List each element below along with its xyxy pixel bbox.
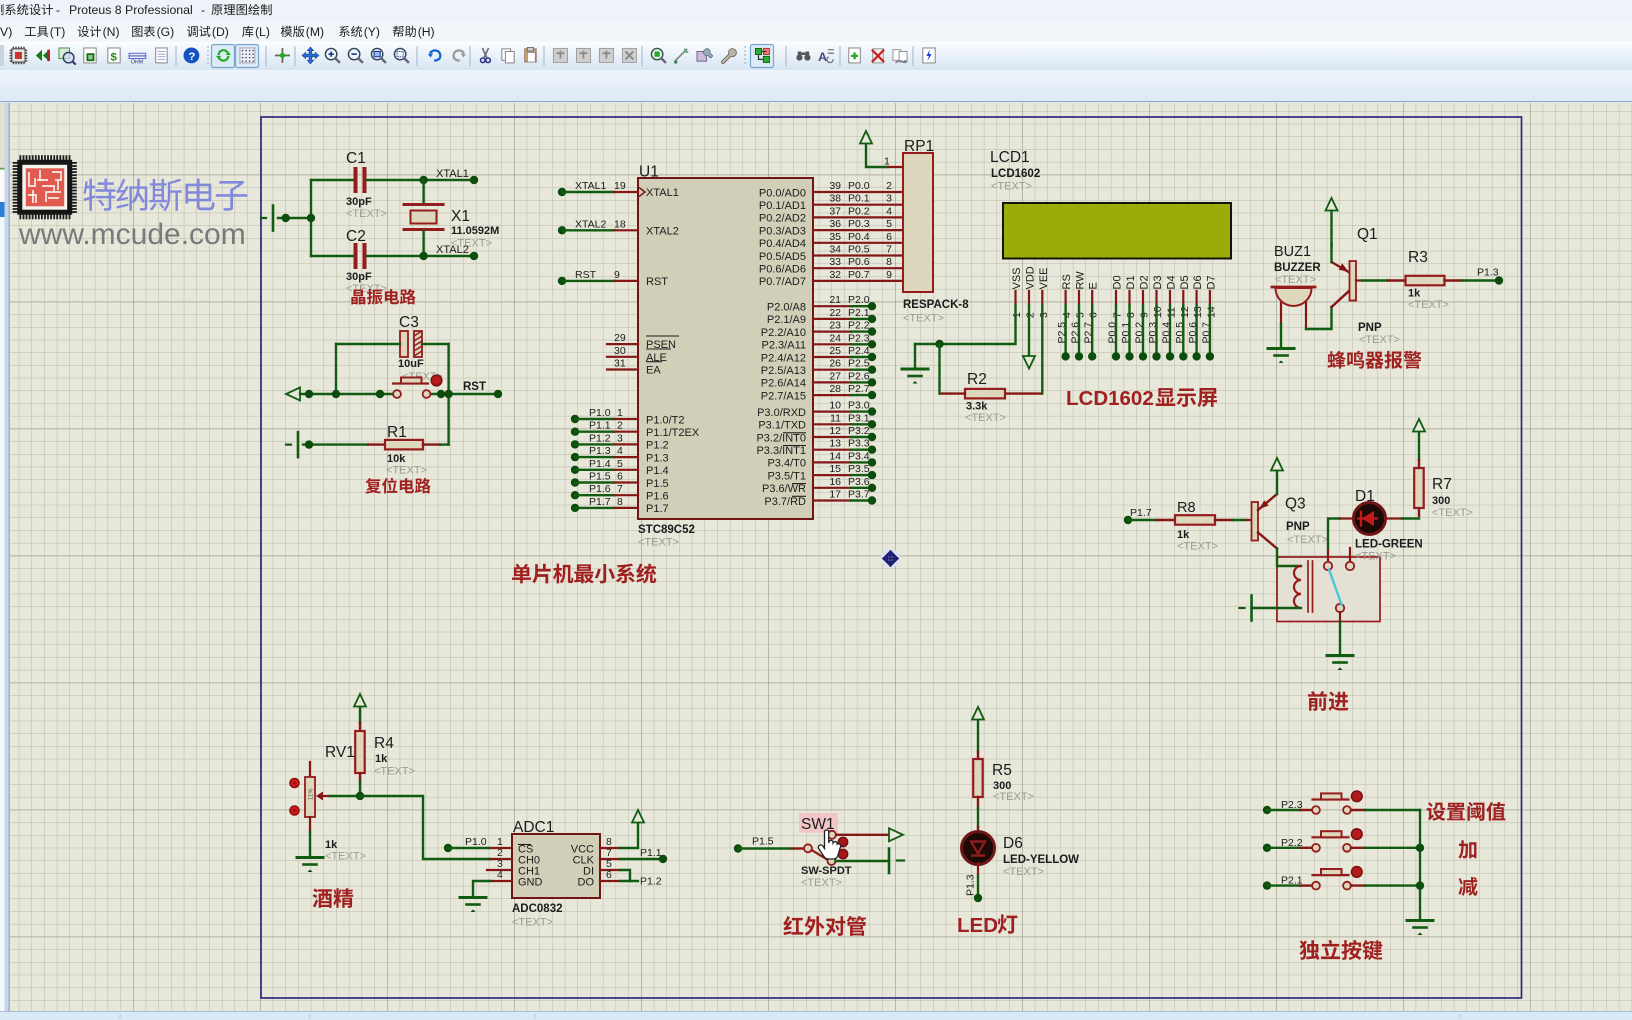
- svg-text:C1: C1: [346, 150, 366, 167]
- svg-text:<TEXT>: <TEXT>: [903, 313, 944, 325]
- svg-text:P0.0/AD0: P0.0/AD0: [759, 187, 806, 199]
- svg-text:R1: R1: [387, 424, 407, 441]
- U1 pin EA (31): [607, 368, 638, 370]
- resistor R8: [1175, 515, 1215, 525]
- svg-text:P2.1/A9: P2.1/A9: [767, 314, 806, 326]
- svg-text:<TEXT>: <TEXT>: [512, 917, 553, 929]
- svg-text:(L): (L): [255, 25, 270, 39]
- svg-text:OHM: OHM: [131, 59, 143, 65]
- svg-text:P0.5/AD5: P0.5/AD5: [759, 251, 806, 263]
- ADC pin CH1 (3): [487, 869, 512, 871]
- svg-text:10k: 10k: [387, 453, 406, 465]
- svg-text:<TEXT>: <TEXT>: [991, 181, 1032, 193]
- svg-text:P2.7/A15: P2.7/A15: [761, 390, 806, 402]
- U1 pins P3.0-P3.7: [813, 411, 851, 413]
- svg-text:10: 10: [829, 400, 841, 412]
- relay RL1 body: [1277, 557, 1380, 622]
- svg-text:37: 37: [829, 205, 841, 217]
- svg-text:<TEXT>: <TEXT>: [386, 465, 427, 477]
- svg-text:P1.5: P1.5: [646, 478, 669, 490]
- svg-text:11: 11: [830, 412, 841, 424]
- svg-text:P1.1: P1.1: [640, 847, 662, 859]
- label MCU minimum system: [512, 564, 531, 584]
- node XTAL1 left: [419, 176, 427, 184]
- svg-text:P1.4: P1.4: [646, 465, 669, 477]
- ADC pin GND (4): [490, 880, 512, 882]
- menu bar: [0, 20, 1632, 42]
- U1 pin XTAL2 (18): [558, 226, 566, 234]
- svg-text:P0.3/AD3: P0.3/AD3: [759, 225, 806, 237]
- svg-text:6: 6: [886, 231, 892, 243]
- svg-text:R7: R7: [1432, 476, 1452, 493]
- power arrow for R5: [972, 707, 984, 720]
- svg-text:3: 3: [617, 432, 623, 444]
- svg-text:D3: D3: [1152, 275, 1164, 289]
- svg-text:7: 7: [617, 483, 623, 495]
- svg-text:<TEXT>: <TEXT>: [346, 208, 387, 220]
- wire wiper to ADC CH0: [360, 796, 490, 859]
- svg-text:29: 29: [614, 332, 626, 344]
- svg-text:P1.7: P1.7: [589, 496, 611, 508]
- label alcohol: [313, 889, 333, 908]
- svg-text:26: 26: [829, 358, 841, 370]
- node XTAL2 left: [419, 252, 427, 260]
- svg-text:4: 4: [886, 205, 892, 217]
- svg-text:P3.1: P3.1: [848, 412, 870, 424]
- capacitor C2: [311, 255, 354, 257]
- svg-text:P0.4: P0.4: [848, 231, 870, 243]
- svg-text:P1.1/T2EX: P1.1/T2EX: [646, 427, 700, 439]
- svg-text:D2: D2: [1139, 275, 1151, 289]
- svg-text:1k: 1k: [325, 839, 338, 851]
- svg-text:Proteus 8 Professional: Proteus 8 Professional: [69, 3, 193, 17]
- svg-text:P1.6: P1.6: [646, 491, 669, 503]
- svg-text:3.3k: 3.3k: [966, 401, 988, 413]
- svg-text:1k: 1k: [1177, 529, 1190, 541]
- svg-text:ADC0832: ADC0832: [512, 903, 563, 915]
- svg-text:(D): (D): [212, 25, 229, 39]
- svg-text:RW: RW: [1075, 271, 1087, 290]
- svg-text:6: 6: [1088, 312, 1100, 318]
- svg-text:P0.5: P0.5: [848, 244, 870, 256]
- push button P2.1: [1263, 881, 1271, 889]
- svg-text:VSS: VSS: [1011, 267, 1023, 289]
- wire P1.7 to R8: [1128, 519, 1157, 521]
- U1 pin PSEN (29): [607, 343, 638, 345]
- svg-text:<TEXT>: <TEXT>: [1275, 274, 1316, 286]
- svg-text:<TEXT>: <TEXT>: [638, 537, 679, 549]
- ADC pin CLK (7): [600, 858, 620, 860]
- svg-text:BUZZER: BUZZER: [1274, 262, 1321, 274]
- svg-text:P0.4/AD4: P0.4/AD4: [759, 238, 806, 250]
- LED D6 yellow: [962, 832, 995, 865]
- crystal X1: [422, 180, 424, 203]
- svg-text:10uF: 10uF: [398, 358, 424, 370]
- svg-text:(H): (H): [418, 25, 435, 39]
- svg-text:P0.6/AD6: P0.6/AD6: [759, 264, 806, 276]
- svg-text:P1.0/T2: P1.0/T2: [646, 414, 685, 426]
- status bar: [0, 1011, 1632, 1020]
- RST net wire with left arrow: [286, 388, 300, 401]
- svg-text:STC89C52: STC89C52: [638, 524, 695, 536]
- capacitor C1: [311, 179, 354, 181]
- svg-text:P3.3/INT1: P3.3/INT1: [756, 445, 806, 457]
- svg-text:4: 4: [497, 869, 503, 881]
- svg-text:39: 39: [829, 180, 841, 192]
- LCD VSS wire to ground: [915, 305, 1016, 344]
- svg-text:P1.0: P1.0: [465, 836, 487, 848]
- svg-text:19: 19: [614, 180, 626, 192]
- ADC pin CS (1): [444, 844, 452, 852]
- svg-text:X1: X1: [451, 208, 470, 225]
- svg-text:BUZ1: BUZ1: [1274, 244, 1311, 260]
- svg-text:36: 36: [829, 218, 841, 230]
- svg-text:P1.4: P1.4: [589, 458, 611, 470]
- svg-text:7: 7: [1112, 312, 1124, 318]
- svg-text:RV1: RV1: [325, 744, 355, 761]
- wire SW1 top throw with arrow: [836, 834, 889, 836]
- svg-text:31: 31: [614, 358, 626, 370]
- wire Q3 collector to relay coil: [1277, 549, 1301, 567]
- svg-text:P3.0: P3.0: [848, 400, 870, 412]
- svg-text:11: 11: [1166, 307, 1178, 318]
- svg-text:15: 15: [829, 463, 841, 475]
- svg-text:<TEXT>: <TEXT>: [801, 877, 842, 889]
- svg-text:P3.2/INT0: P3.2/INT0: [756, 432, 806, 444]
- svg-text:P0.0: P0.0: [848, 180, 870, 192]
- svg-text:XTAL2: XTAL2: [575, 218, 606, 230]
- svg-text:P1.7: P1.7: [646, 503, 669, 515]
- svg-text:P1.6: P1.6: [589, 483, 611, 495]
- svg-text:P2.2: P2.2: [848, 320, 870, 332]
- svg-text:P1.2: P1.2: [646, 440, 669, 452]
- label plus: [1458, 840, 1476, 859]
- svg-text:P1.5: P1.5: [752, 836, 774, 848]
- label crystal circuit: [351, 290, 365, 305]
- svg-text:P1.3: P1.3: [646, 452, 669, 464]
- power arrow for R7: [1413, 419, 1425, 432]
- svg-text:<TEXT>: <TEXT>: [1177, 541, 1218, 553]
- svg-text:D6: D6: [1003, 835, 1023, 852]
- svg-text:P1.3: P1.3: [1477, 267, 1499, 279]
- svg-text:18: 18: [614, 218, 626, 230]
- svg-text:33: 33: [829, 256, 841, 268]
- svg-text:P2.3: P2.3: [848, 332, 870, 344]
- svg-text:35: 35: [829, 231, 841, 243]
- transistor Q3 PNP: [1252, 502, 1259, 541]
- svg-text:VEE: VEE: [1038, 267, 1050, 289]
- svg-text:P3.5: P3.5: [848, 463, 870, 475]
- junction: [282, 214, 290, 222]
- svg-text:4: 4: [617, 445, 623, 457]
- svg-text:P0.7/AD7: P0.7/AD7: [759, 276, 806, 288]
- svg-text:9: 9: [886, 269, 892, 281]
- ground for RV1: [297, 856, 323, 859]
- svg-text:P3.5/T1: P3.5/T1: [767, 470, 806, 482]
- svg-text:1k: 1k: [375, 753, 388, 765]
- svg-text:8: 8: [1125, 312, 1137, 318]
- svg-text:<TEXT>: <TEXT>: [965, 412, 1006, 424]
- svg-text:P3.2: P3.2: [848, 425, 870, 437]
- svg-text:300: 300: [1432, 495, 1450, 507]
- svg-text:E: E: [1088, 282, 1100, 289]
- wire D1 to R7: [1385, 517, 1402, 519]
- svg-text:P0.2: P0.2: [848, 205, 870, 217]
- buzzer right pin wire to Q1 collector: [1305, 303, 1307, 329]
- toolbar icon group: [0, 45, 935, 68]
- svg-text:D1: D1: [1355, 488, 1375, 505]
- relay coil ground terminal bar: [1250, 596, 1253, 621]
- svg-text:D1: D1: [1125, 275, 1137, 289]
- svg-text:P0.1/AD1: P0.1/AD1: [759, 200, 806, 212]
- label forward: [1308, 691, 1327, 711]
- power arrow for R4: [354, 694, 366, 707]
- svg-text:22: 22: [829, 307, 841, 319]
- svg-text:P2.4: P2.4: [848, 345, 870, 357]
- label buzzer alarm: [1328, 351, 1346, 369]
- left docked panel sliver: [0, 103, 10, 1011]
- svg-text:23: 23: [829, 320, 841, 332]
- svg-text:LED-GREEN: LED-GREEN: [1355, 539, 1423, 551]
- svg-text:PNP: PNP: [1358, 322, 1382, 334]
- svg-text:EA: EA: [646, 365, 661, 377]
- svg-text:14: 14: [829, 450, 841, 462]
- key bus to ground: [1419, 810, 1421, 919]
- svg-text:2: 2: [1025, 312, 1037, 318]
- svg-text:11%: 11%: [309, 788, 315, 800]
- svg-text:10: 10: [1152, 306, 1164, 318]
- svg-text:14: 14: [1205, 306, 1217, 318]
- svg-text:6: 6: [606, 869, 612, 881]
- svg-text:P2.5/A13: P2.5/A13: [761, 365, 806, 377]
- svg-text:P2.2/A10: P2.2/A10: [761, 327, 806, 339]
- label LCD1602 display: [1066, 387, 1217, 410]
- svg-text:8: 8: [617, 496, 623, 508]
- buzzer left pin to ground: [1280, 303, 1282, 324]
- svg-text:P2.5: P2.5: [848, 358, 870, 370]
- svg-text:2: 2: [886, 180, 892, 192]
- U1 pins P2.0-P2.7: [813, 305, 851, 307]
- svg-text:C2: C2: [346, 228, 366, 245]
- svg-text:13: 13: [1192, 306, 1204, 318]
- svg-text:P2.4/A12: P2.4/A12: [761, 352, 806, 364]
- LCD VEE wire to R2: [1041, 305, 1043, 394]
- svg-text:XTAL2: XTAL2: [436, 244, 469, 256]
- power arrow for RP1: [860, 131, 872, 144]
- svg-text:P2.7: P2.7: [848, 383, 870, 395]
- svg-text:5: 5: [886, 218, 892, 230]
- wire left rail: [278, 217, 311, 219]
- svg-text:P1.2: P1.2: [640, 876, 662, 888]
- svg-text:<TEXT>: <TEXT>: [993, 791, 1034, 803]
- svg-text:RESPACK-8: RESPACK-8: [903, 299, 969, 311]
- ADC pin CH0 (2): [490, 858, 512, 860]
- sheet border: [261, 117, 1522, 998]
- svg-text:P2.1: P2.1: [848, 307, 870, 319]
- svg-text:(T): (T): [50, 25, 66, 39]
- svg-text:RST: RST: [575, 269, 597, 281]
- svg-text:P2.0: P2.0: [848, 294, 870, 306]
- svg-text:P0.2/AD2: P0.2/AD2: [759, 213, 806, 225]
- svg-text:25: 25: [829, 345, 841, 357]
- power arrow for ADC: [632, 810, 644, 823]
- svg-text:5: 5: [617, 458, 623, 470]
- ground for buzzer: [1268, 347, 1294, 350]
- svg-text:12: 12: [1179, 306, 1191, 318]
- svg-text:RST: RST: [463, 381, 486, 393]
- svg-text:SW1: SW1: [801, 816, 835, 833]
- wire R3 to P1.3: [1445, 279, 1463, 281]
- svg-text:P3.7/RD: P3.7/RD: [764, 496, 806, 508]
- svg-text:21: 21: [829, 294, 841, 306]
- svg-text:2: 2: [617, 420, 623, 432]
- svg-text:(M): (M): [306, 25, 324, 39]
- svg-text:?: ?: [188, 51, 195, 63]
- svg-text:1: 1: [617, 407, 623, 419]
- svg-text:<TEXT>: <TEXT>: [1432, 507, 1473, 519]
- power arrow for Q3: [1271, 458, 1283, 471]
- push button reset: [393, 390, 401, 398]
- svg-text:P2.6/A14: P2.6/A14: [761, 378, 806, 390]
- title bar text: [0, 3, 272, 17]
- svg-text:R8: R8: [1177, 500, 1196, 516]
- svg-text:5: 5: [1075, 312, 1087, 318]
- svg-text:P3.7: P3.7: [848, 489, 870, 501]
- relay contacts: [1327, 548, 1329, 562]
- svg-text:<TEXT>: <TEXT>: [374, 766, 415, 778]
- relay blade (cyan): [1329, 570, 1342, 605]
- svg-text:www.mcude.com: www.mcude.com: [18, 218, 246, 251]
- transistor Q1 PNP: [1332, 291, 1350, 308]
- svg-text:Q1: Q1: [1357, 226, 1378, 243]
- svg-text:11.0592M: 11.0592M: [451, 225, 499, 237]
- label reset circuit: [365, 478, 381, 494]
- ADC pin DI (5): [600, 869, 620, 871]
- label independent keys: [1299, 940, 1319, 960]
- svg-text:P2.3/A11: P2.3/A11: [762, 340, 806, 352]
- svg-text:P3.4/T0: P3.4/T0: [767, 458, 806, 470]
- svg-text:3: 3: [886, 193, 892, 205]
- svg-text:3: 3: [1038, 312, 1050, 318]
- svg-text:P1.3: P1.3: [589, 445, 611, 457]
- ground for ADC: [460, 896, 486, 899]
- U1 pin XTAL1 (19): [558, 188, 566, 196]
- svg-text:LCD1: LCD1: [990, 149, 1030, 166]
- svg-text:P0.6: P0.6: [848, 256, 870, 268]
- svg-text:P3.4: P3.4: [848, 450, 870, 462]
- wire R5 to D6: [977, 797, 979, 808]
- terminal bar right of SW1: [888, 849, 891, 874]
- svg-text:LED-YELLOW: LED-YELLOW: [1003, 854, 1079, 866]
- pan cursor icon: [883, 551, 899, 567]
- svg-text:17: 17: [829, 489, 841, 501]
- svg-text:PNP: PNP: [1286, 521, 1310, 533]
- svg-text:LCD1602: LCD1602: [991, 168, 1040, 180]
- wire SW1 bottom throw to terminal: [836, 860, 890, 862]
- ADC pin DO (6): [600, 880, 620, 882]
- wire relay NO contact to LED D1: [1328, 519, 1340, 549]
- svg-text:7: 7: [886, 244, 892, 256]
- svg-text:D6: D6: [1192, 275, 1204, 289]
- wire C3 left down: [335, 344, 337, 394]
- svg-text:<TEXT>: <TEXT>: [1287, 534, 1328, 546]
- U1 pin RST (9): [558, 277, 566, 285]
- svg-text:8: 8: [886, 256, 892, 268]
- U1 pin ALE (30): [607, 356, 638, 358]
- label LED lamp: [957, 914, 1017, 937]
- svg-text:<TEXT>: <TEXT>: [1355, 551, 1396, 563]
- svg-text:VDD: VDD: [1025, 266, 1037, 289]
- svg-text:R3: R3: [1408, 249, 1428, 266]
- resistor R7: [1414, 468, 1424, 508]
- svg-text:D5: D5: [1179, 275, 1191, 289]
- svg-text:<TEXT>: <TEXT>: [1003, 866, 1044, 878]
- svg-text:30pF: 30pF: [346, 271, 372, 283]
- resistor R2: [965, 389, 1005, 399]
- svg-text:$: $: [110, 51, 117, 63]
- svg-text:1: 1: [1011, 312, 1023, 318]
- svg-text:XTAL2: XTAL2: [646, 225, 679, 237]
- svg-text:12: 12: [829, 425, 841, 437]
- svg-text:P3.1/TXD: P3.1/TXD: [758, 420, 806, 432]
- svg-text:P1.2: P1.2: [589, 432, 611, 444]
- LCD screen: [1003, 203, 1231, 259]
- watermark text 特纳斯电子: [83, 179, 115, 211]
- svg-text:<TEXT>: <TEXT>: [1408, 299, 1449, 311]
- ground for keys: [1407, 919, 1433, 922]
- svg-text:24: 24: [829, 332, 841, 344]
- svg-text:16: 16: [829, 476, 841, 488]
- toolbar band below: [0, 70, 1632, 103]
- wire relay common to ground: [1339, 622, 1341, 655]
- svg-text:XTAL1: XTAL1: [436, 168, 469, 180]
- svg-text:RP1: RP1: [904, 138, 934, 155]
- svg-text:D4: D4: [1166, 275, 1178, 289]
- svg-text:13: 13: [829, 438, 841, 450]
- svg-text:1k: 1k: [1408, 288, 1421, 300]
- svg-text:R4: R4: [374, 735, 394, 752]
- svg-text:A: A: [818, 50, 827, 64]
- relay coil bottom wire to terminal: [1253, 607, 1301, 609]
- svg-text:RS: RS: [1061, 274, 1073, 289]
- svg-text:P0.1: P0.1: [848, 193, 870, 205]
- wire P1.5 to switch pole: [738, 847, 792, 849]
- label set threshold: [1427, 802, 1446, 821]
- wire C3 right down: [447, 344, 449, 445]
- wire R8 to Q3 base: [1215, 519, 1233, 521]
- label IR pair: [783, 916, 803, 935]
- svg-text:P2.6: P2.6: [848, 370, 870, 382]
- svg-text:-: -: [56, 3, 60, 17]
- svg-text:P1.5: P1.5: [589, 471, 611, 483]
- svg-text:4: 4: [1061, 312, 1073, 318]
- resistor R5: [973, 759, 983, 797]
- power arrow for Q1: [1326, 198, 1338, 211]
- svg-text:SW-SPDT: SW-SPDT: [801, 865, 852, 877]
- RV1 interactive dots: [290, 778, 299, 787]
- svg-text:XTAL1: XTAL1: [646, 187, 679, 199]
- svg-text:38: 38: [829, 193, 841, 205]
- svg-text:28: 28: [829, 383, 841, 395]
- Q1 base wire to R3: [1356, 279, 1362, 281]
- svg-text:P3.3: P3.3: [848, 438, 870, 450]
- svg-text:9: 9: [614, 269, 620, 281]
- svg-text:LED: LED: [957, 914, 998, 937]
- svg-text:32: 32: [829, 269, 841, 281]
- resistor R4: [355, 731, 365, 773]
- svg-text:P2.0/A8: P2.0/A8: [767, 302, 806, 314]
- toolbar background: [0, 42, 1632, 70]
